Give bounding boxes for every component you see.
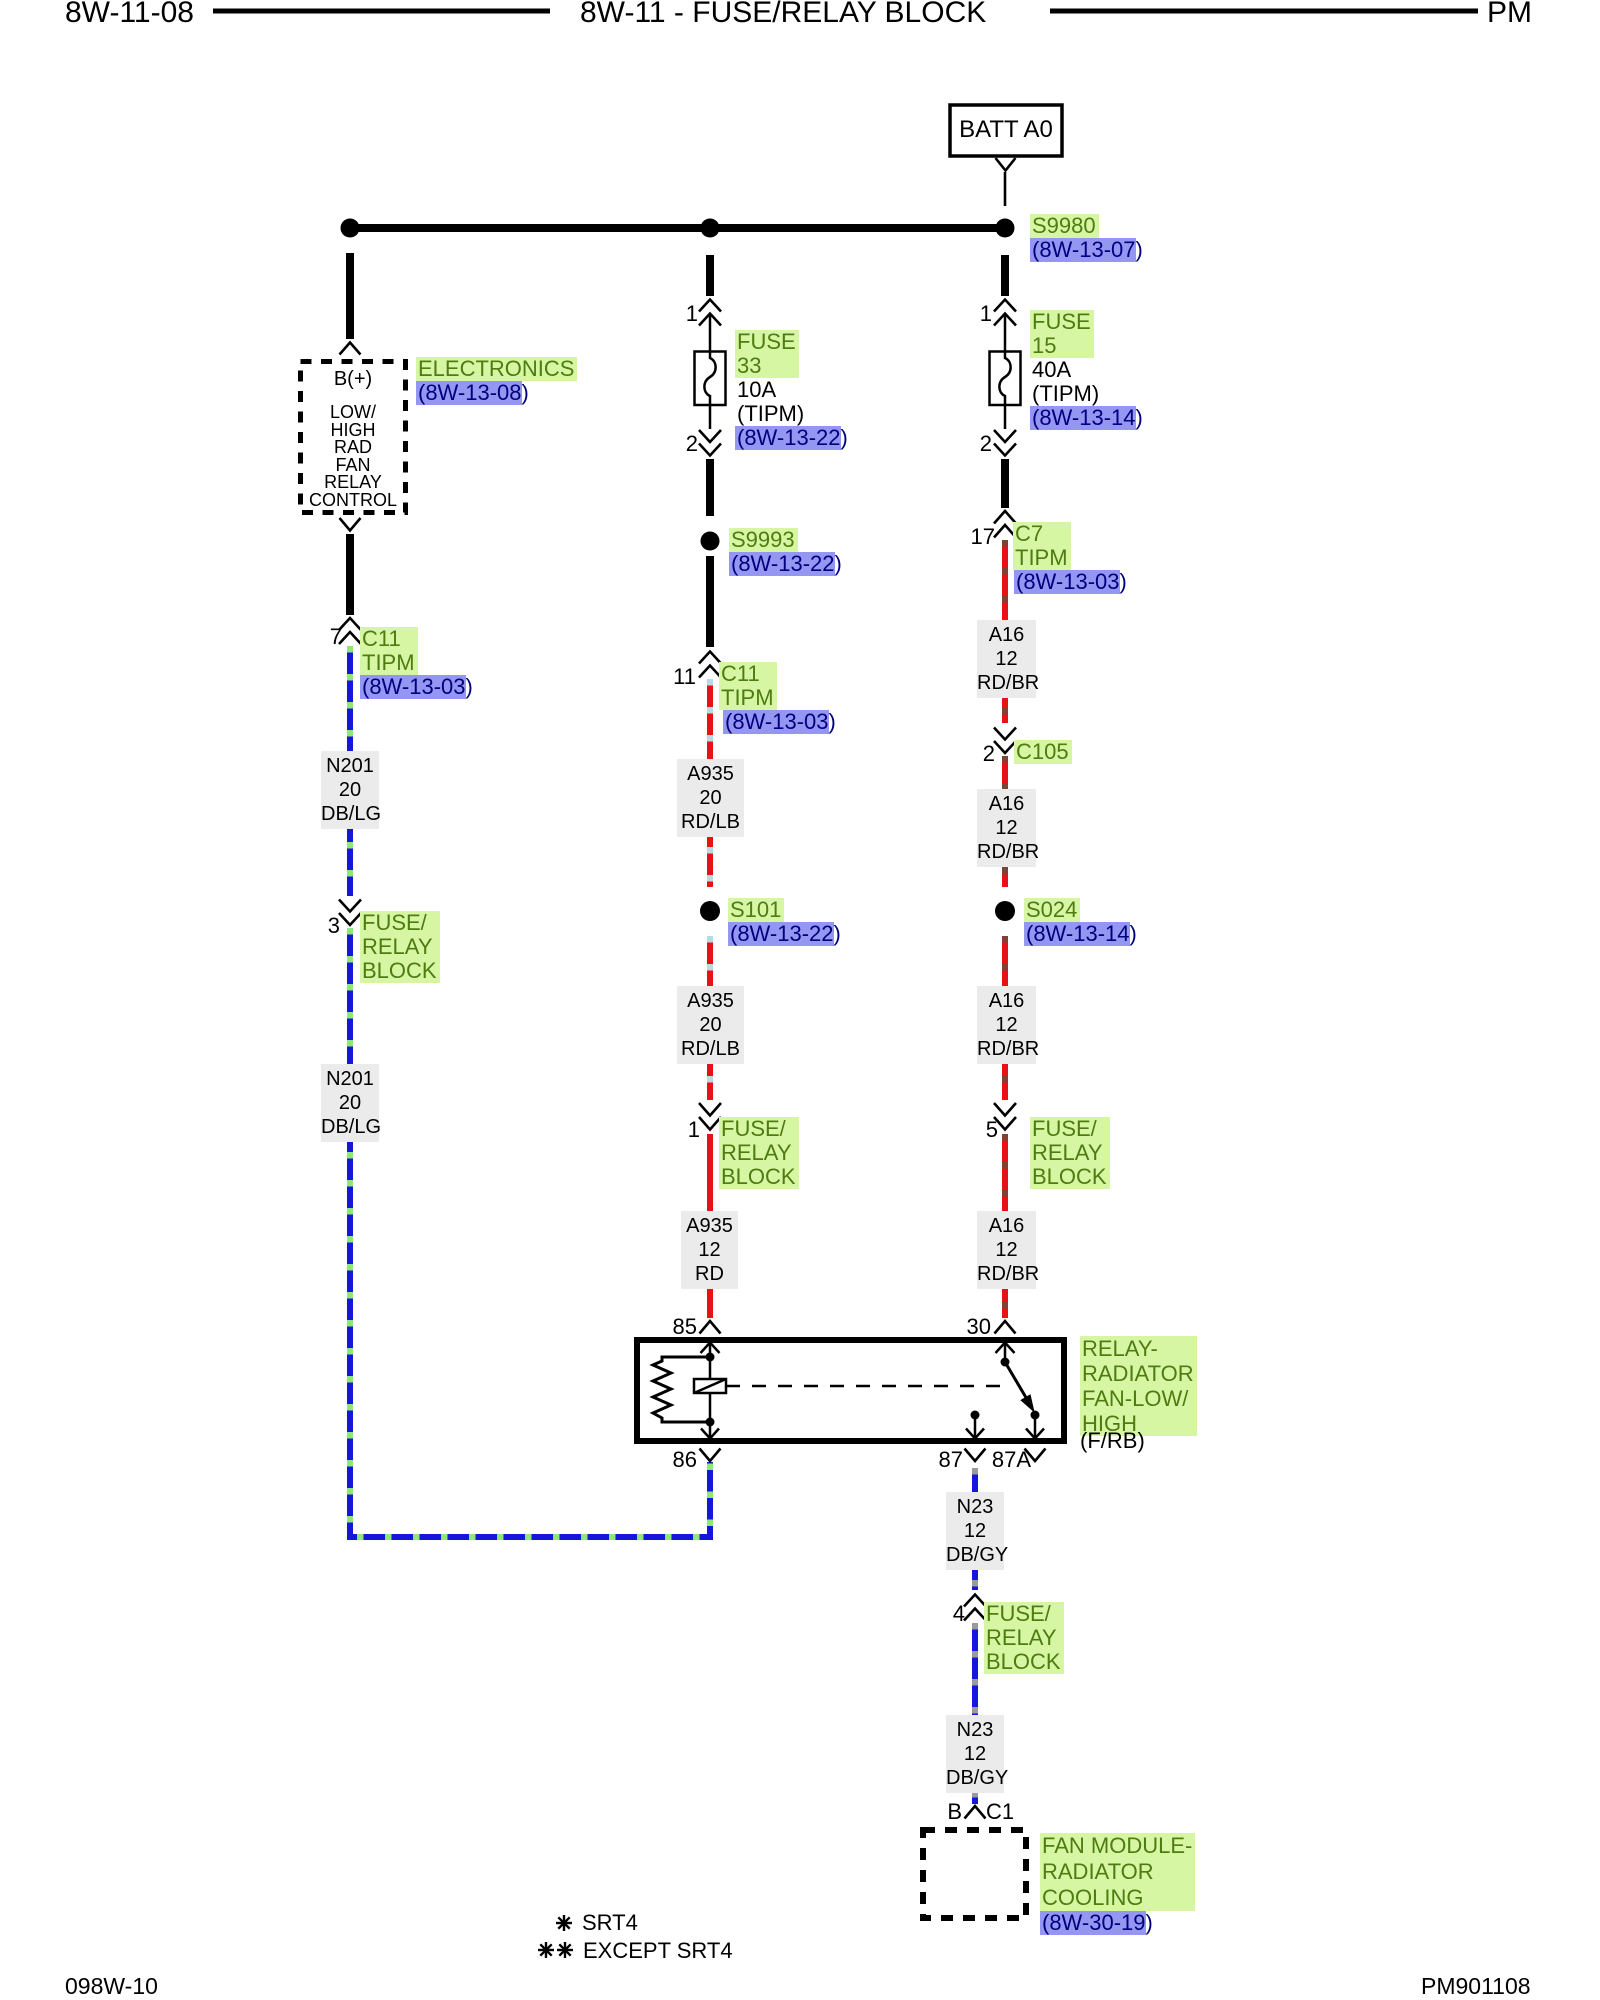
- wire left column black 2: [346, 534, 354, 615]
- wire label A935 20 RD/LB upper: [677, 759, 744, 837]
- wire N23 12 DB/GY lower: [972, 1623, 978, 1804]
- fan module label: [1040, 1833, 1195, 1911]
- relay armature linkage dashed: [726, 1385, 1008, 1388]
- pin 11 connector C11: [626, 665, 696, 689]
- fuse 15: [990, 352, 1021, 406]
- relay resistor: [653, 1357, 710, 1422]
- relay switch pivot: [1001, 1358, 1010, 1367]
- splice S101: [700, 901, 720, 921]
- wire right column black stub: [1001, 255, 1009, 296]
- wire label N23 12 DB/GY lower: [946, 1715, 1004, 1793]
- wire A935 12 RD: [707, 1134, 713, 1318]
- wire label A935 20 RD/LB lower: [677, 986, 744, 1064]
- wire label A16 12 RD/BR 4: [977, 1211, 1036, 1289]
- relay coil return arrow down pin 86: [709, 1422, 712, 1437]
- relay switch common arrow pin 30: [1004, 1343, 1007, 1362]
- ELECTRONICS box internal text: [300, 404, 406, 509]
- footer left 098W-10: [65, 1974, 158, 1998]
- pin C1 fan module: [986, 1800, 1014, 1824]
- relay coil: [694, 1379, 726, 1393]
- wire right black to C7: [1001, 459, 1009, 508]
- connector FUSE15 pin 1: [994, 300, 1016, 312]
- footnote asterisks EXCEPT SRT4: [538, 1942, 573, 1958]
- wire label N201 20 DB/LG lower: [321, 1064, 379, 1142]
- footnote SRT4: [582, 1911, 638, 1935]
- relay contact 87A: [1031, 1411, 1040, 1420]
- connector pin 87: [965, 1449, 986, 1462]
- wire battery bus: [347, 224, 1008, 232]
- splice label S9980: [1030, 214, 1099, 238]
- wire label N201 20 DB/LG upper: [321, 751, 379, 829]
- wire N201 20 DB/LG upper: [347, 646, 353, 896]
- wire middle black to S9993: [706, 459, 714, 516]
- splice label S024: [1024, 898, 1080, 922]
- connector C7 pin 17: [994, 511, 1016, 524]
- connector C11 pin 11: [699, 652, 721, 664]
- relay coil junction bottom: [706, 1418, 715, 1427]
- header right PM: [1487, 0, 1532, 28]
- pin 5 fuse relay block: [928, 1118, 998, 1142]
- fuse 33 label: [735, 330, 799, 378]
- relay pin 30 chevron: [995, 1321, 1016, 1334]
- wire A16 12 RD/BR middle: [1002, 756, 1008, 887]
- connector below ELECTRONICS box: [340, 518, 361, 531]
- splice S024: [995, 901, 1015, 921]
- connector fuse relay block pin 3: [339, 900, 361, 912]
- fan module dashed box: [923, 1830, 1026, 1918]
- wire label A16 12 RD/BR 1: [977, 620, 1036, 698]
- wire middle column black stub: [706, 255, 714, 296]
- wire A935 20 RD/LB upper: [707, 679, 713, 887]
- wire N201 20 DB/LG loop lower: [350, 928, 710, 1537]
- fuse relay block label left: [360, 911, 440, 983]
- connector pin 86: [700, 1449, 721, 1462]
- wire label A16 12 RD/BR 3: [977, 986, 1036, 1064]
- wire battery feed: [1004, 172, 1007, 206]
- splice S9980: [996, 219, 1015, 238]
- pin 17 connector C7: [925, 525, 995, 549]
- splice label S101: [728, 898, 784, 922]
- wire label A935 12 RD: [681, 1211, 738, 1289]
- pin 87 relay: [893, 1448, 963, 1472]
- connector fuse relay block pin 5: [994, 1103, 1016, 1116]
- pin 2 fuse 15: [922, 432, 992, 456]
- connector fuse relay block pin 1: [699, 1103, 721, 1116]
- wire A16 12 RD/BR lower: [1002, 1134, 1008, 1318]
- footnote asterisk SRT4: [556, 1915, 572, 1931]
- pin 86 relay: [627, 1448, 697, 1472]
- relay switch blade: [1005, 1362, 1031, 1406]
- header rule left: [213, 9, 550, 14]
- footnote EXCEPT SRT4: [583, 1939, 733, 1963]
- pin 1 fuse 15: [922, 302, 992, 326]
- wire A16 12 RD/BR below S024: [1002, 936, 1008, 1100]
- connector below BATT A0: [996, 158, 1016, 171]
- ELECTRONICS label: [416, 357, 577, 381]
- node junction middle column: [701, 219, 720, 238]
- wire left column black: [346, 253, 354, 339]
- connector fuse relay block pin 4: [964, 1595, 986, 1607]
- header title: [580, 0, 986, 28]
- connector pin into ELECTRONICS box: [340, 343, 361, 355]
- connector FUSE33 pin 2: [699, 430, 721, 442]
- footer right PM901108: [1421, 1974, 1531, 1998]
- fuse 33: [695, 352, 726, 406]
- wire label A16 12 RD/BR 2: [977, 789, 1036, 867]
- pin 2 connector C105: [925, 742, 995, 766]
- pin B fan module: [892, 1800, 962, 1824]
- splice S9993: [701, 532, 720, 551]
- connector label C7 TIPM: [1013, 522, 1071, 570]
- wire into fuse 15: [1004, 314, 1007, 352]
- connector label C11 TIPM middle: [719, 662, 777, 710]
- fuse relay block label middle: [719, 1117, 799, 1189]
- relay contact 87: [971, 1411, 980, 1420]
- pin 7 connector C11: [272, 625, 342, 649]
- connector C11 pin 7: [339, 618, 361, 630]
- pin 1 fuse relay block: [630, 1118, 700, 1142]
- connector label C11 TIPM left: [360, 627, 418, 675]
- connector C1 pin B: [965, 1806, 986, 1819]
- connector FUSE15 pin 2: [994, 430, 1016, 442]
- wire A935 20 RD/LB lower: [707, 936, 713, 1100]
- relay RELAY-RADIATOR FAN-LOW/HIGH box: [637, 1340, 1064, 1441]
- fuse relay block label bottom: [984, 1602, 1064, 1674]
- node junction left column: [341, 219, 360, 238]
- wire A16 12 RD/BR upper: [1002, 540, 1008, 723]
- connector label C105: [1014, 740, 1072, 764]
- pin 3 fuse relay block: [270, 914, 340, 938]
- wire label N23 12 DB/GY upper: [946, 1492, 1004, 1570]
- wire fuse 15 to pin 2: [1004, 405, 1007, 429]
- wire into fuse 33: [709, 314, 712, 352]
- relay coil wire lower: [709, 1393, 712, 1423]
- pin 30 relay: [921, 1315, 991, 1339]
- battery feed box BATT A0: [950, 105, 1062, 156]
- connector pin 87A: [1025, 1449, 1046, 1462]
- relay label: [1080, 1336, 1197, 1436]
- wire N23 12 DB/GY upper: [972, 1468, 978, 1590]
- battery feed label BATT A0: [950, 118, 1062, 142]
- splice label S9993: [729, 528, 798, 552]
- ELECTRONICS module dashed box: [301, 362, 406, 513]
- pin 1 fuse 33: [628, 302, 698, 326]
- pin 2 fuse 33: [628, 432, 698, 456]
- header rule right: [1050, 9, 1478, 14]
- pin 4 fuse relay block: [895, 1602, 965, 1626]
- wire fuse 33 to pin 2: [709, 405, 712, 429]
- relay pin 85 chevron: [700, 1321, 721, 1334]
- wire middle black below S9993: [706, 556, 714, 647]
- header left page number: [65, 0, 194, 28]
- pin 85 relay: [627, 1315, 697, 1339]
- relay coil junction top: [706, 1353, 715, 1362]
- relay coil feed arrow up pin 85: [709, 1343, 712, 1379]
- connector C105 pin 2: [994, 728, 1016, 740]
- fuse relay block label right: [1030, 1117, 1110, 1189]
- node B(+) label: [300, 367, 406, 391]
- pin 87A relay: [961, 1448, 1031, 1472]
- fuse 15 label: [1030, 310, 1094, 358]
- connector FUSE33 pin 1: [699, 300, 721, 312]
